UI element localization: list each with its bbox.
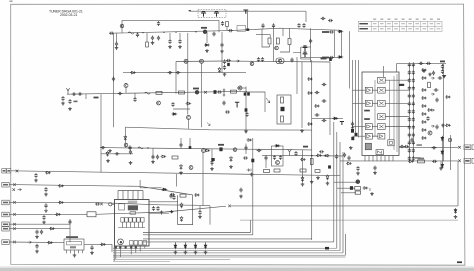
component X205 [244, 92, 247, 95]
capacitor ladder B y127 [412, 125, 415, 130]
wire drop x310 [310, 28, 312, 62]
ic U3 pin down 6 [384, 156, 386, 162]
component X201 [329, 58, 332, 61]
ground G244 [129, 161, 133, 165]
capacitor C241 [315, 113, 320, 116]
ic U3 pin down 5 [380, 156, 382, 162]
capacitor C207 [157, 36, 160, 41]
capacitor C264 [152, 206, 155, 211]
ground G247 [205, 49, 209, 53]
transistor Q203 [120, 24, 124, 28]
ground G223 [73, 254, 77, 258]
wire drop x188 [187, 33, 189, 115]
ic U1 pin pad [125, 246, 127, 248]
label C217 [322, 31, 329, 33]
capacitor ladder A y112 [408, 109, 411, 114]
wire buffer to mixer [372, 135, 377, 137]
capacitor ladder B y73 [412, 70, 415, 75]
ic U3 pin down 7 [388, 156, 390, 162]
wire drop to diode [174, 242, 176, 245]
wire drop x222 to mid rail [221, 32, 223, 61]
label Q204 [201, 27, 207, 29]
wire x266 drop [265, 156, 267, 169]
arrow A204 [28, 241, 32, 244]
wire internal U3 d [396, 74, 398, 152]
connector CN2 [2, 182, 9, 187]
connector CN4 [2, 212, 9, 217]
capacitor ladder A y119 [408, 117, 411, 122]
ground G207 [68, 107, 72, 111]
capacitor ladder A y151 [408, 148, 411, 153]
wire Q214 down [188, 120, 190, 129]
ic U2 pin 3 [74, 250, 76, 253]
capacitor ladder B y65 [412, 62, 415, 67]
capacitor ladder B y104 [412, 101, 415, 106]
block P1 [388, 140, 394, 146]
capacitor C258 [198, 210, 201, 215]
wire buffer to mixer [372, 102, 377, 104]
capacitor ladder B y88 [412, 86, 415, 91]
fuse F202 [145, 92, 151, 94]
wire drop x289 [289, 28, 291, 38]
transistor Q206 [303, 46, 308, 51]
ic U1 top pin wire [127, 191, 129, 200]
mixer M3 [378, 100, 386, 106]
capacitor C211 [228, 29, 233, 32]
connector CN3 [2, 200, 9, 205]
ic U1 pin stub 1 [121, 222, 123, 228]
diode D212 [161, 155, 167, 158]
bottom scan shadow fade [0, 266, 474, 268]
wire rail y57 [301, 56, 342, 58]
buffer B4 [365, 133, 372, 139]
diode D252 [441, 163, 444, 169]
ic U1 internal rail [118, 227, 145, 229]
diode D231 [162, 188, 168, 191]
wire long vertical x311 [311, 60, 313, 240]
inductor L201 [246, 29, 249, 31]
capacitor C252 [279, 155, 282, 160]
transistor Q221 [428, 131, 432, 135]
wire row feed [353, 89, 366, 91]
ground G226 [454, 215, 458, 219]
wire top right rail [397, 63, 447, 65]
bottom scan shadow [0, 268, 474, 271]
label Q217 [218, 144, 224, 146]
capacitor C245 [151, 155, 154, 160]
arrow A202 [207, 123, 210, 126]
capacitor C215 [297, 23, 300, 28]
capacitor ladder A y143 [408, 140, 411, 145]
connector CN1b [7, 169, 11, 173]
ic U3 pin down 8 [392, 156, 394, 162]
wire stub riser a [334, 181, 356, 183]
ic U2 outline [64, 239, 84, 250]
resistor R206 [231, 90, 237, 93]
capacitor C219 [226, 59, 231, 62]
fuse F201 [128, 32, 134, 34]
wire row out [385, 89, 409, 91]
ic U1 top pin wire [117, 191, 119, 200]
ic U1 pin stub 6 [141, 222, 143, 228]
capacitor C234 [133, 97, 136, 102]
ground G242 [349, 146, 353, 150]
diode D210 [307, 123, 313, 126]
diode at x195.5 [194, 244, 197, 250]
diode D247 [180, 164, 183, 170]
wire row out [385, 116, 409, 118]
wire drop [440, 161, 442, 166]
diode D241 [106, 151, 109, 157]
transistor Q207 [303, 52, 308, 57]
title text line 1 [49, 10, 83, 14]
wire node to U1 [112, 203, 115, 205]
capacitor C208 [168, 39, 171, 44]
ground under x205.5 [204, 251, 208, 255]
svg-text:2002-03-21: 2002-03-21 [60, 13, 77, 17]
capacitor C251 [273, 155, 276, 160]
wire drop x180 [179, 33, 181, 39]
ground G211 [151, 160, 155, 164]
transistor Q209 [278, 59, 281, 62]
loop coil L202 [276, 58, 284, 64]
capacitor C250 [264, 156, 267, 161]
diode col y106 [421, 105, 427, 108]
capacitor C206 [151, 36, 154, 41]
capacitor ladder B y80 [412, 78, 415, 83]
junction J205 [195, 31, 196, 32]
mixer M5 [378, 124, 386, 130]
capacitor C308 [239, 188, 242, 193]
ground G224 [90, 251, 94, 255]
capacitor C291 [34, 173, 37, 178]
crossing node N201 [204, 91, 207, 94]
diode D221 [326, 175, 329, 181]
crossing node N205 [100, 203, 103, 206]
wire Q212 to bus [125, 88, 127, 94]
capacitor C299 [129, 150, 132, 155]
ic U2 inner [67, 242, 82, 249]
wire x181 drop [180, 138, 182, 148]
arrow right bank y94 [431, 93, 434, 95]
wire drop x273 [273, 28, 275, 62]
ic U3 outline [362, 72, 399, 156]
wire drop to diode [184, 242, 186, 245]
diode D230 [180, 216, 183, 222]
wire drop x283 [282, 28, 284, 36]
wire row feed [353, 135, 366, 137]
capacitor C298 [115, 152, 120, 155]
ground G216 [326, 182, 330, 186]
capacitor C261 [68, 220, 71, 225]
diode D243 [194, 194, 200, 197]
wire rail y118 [312, 117, 343, 119]
ground G251 [441, 124, 445, 128]
wire above U1 drop [139, 180, 141, 188]
diode D222 [58, 185, 64, 188]
wire B4 to M area [372, 135, 378, 137]
wire riser x345 [345, 234, 347, 255]
diode D236 [346, 162, 352, 165]
capacitor C262 [35, 244, 38, 249]
ground under x195.5 [194, 251, 198, 255]
wire from CN3 [9, 202, 210, 205]
diode D254 [445, 124, 451, 127]
resistor R203 [288, 39, 291, 45]
wire drop x262 [261, 29, 263, 45]
wire to C205 [116, 33, 118, 42]
capacitor ladder B y143 [412, 140, 415, 145]
label row2 [415, 157, 420, 159]
capacitor C214 [309, 39, 312, 44]
loop box wires [277, 95, 291, 124]
ic U1 pin stub 4 [133, 222, 135, 228]
capacitor C246 [156, 155, 159, 160]
label inside U3 a [364, 110, 370, 112]
capacitor C225 [223, 65, 226, 70]
transistor Q211 [200, 59, 204, 63]
ground G228 [428, 73, 432, 77]
diode D204 [218, 67, 221, 73]
label L203 [94, 97, 99, 99]
capacitor C314 [434, 88, 439, 91]
capacitor C243 [101, 146, 106, 149]
label C218 [322, 57, 329, 59]
diode col y78 [421, 77, 427, 80]
regulator block [365, 143, 371, 150]
wire x302 vertical [301, 62, 303, 128]
wire riser x333 [333, 122, 335, 242]
wire riser x252 [252, 138, 254, 235]
ground G245 [168, 45, 172, 49]
capacitor C239 [322, 83, 327, 86]
wire main mid bus [67, 91, 247, 94]
junction J203 [163, 32, 164, 33]
capacitor C295 dark tee [340, 122, 344, 126]
diode D202 [338, 30, 344, 33]
capacitor C265 [156, 206, 159, 211]
capacitor C297 [432, 146, 437, 149]
capacitor C226 [168, 71, 173, 74]
capacitor C247 [179, 143, 182, 148]
component X215 [351, 137, 354, 140]
wire riser x250 [250, 220, 252, 232]
wire main top bus [109, 28, 342, 33]
transistor Q215 [238, 86, 242, 90]
diode D244 [247, 139, 253, 142]
wire U1 right stub1 [149, 201, 178, 203]
component X214 [355, 133, 358, 136]
transistor Q204 [203, 30, 207, 34]
transistor Q232 [157, 101, 161, 105]
loop wires2 [272, 146, 284, 166]
wire bundle band [113, 250, 340, 252]
wire from CN6 [9, 241, 64, 244]
wire x125 down [124, 127, 126, 148]
ic U2 pin 4 [78, 250, 80, 253]
ic U1 pin pad [119, 246, 121, 248]
ground G225 [160, 211, 164, 215]
capacitor C270 [404, 145, 409, 148]
transistor Q213 [195, 91, 199, 95]
capacitor C210 [212, 32, 215, 37]
ground under x175.4 [174, 251, 178, 255]
arrow right bank y110 [431, 109, 434, 111]
component X210 [251, 159, 254, 163]
fuse F203 [138, 147, 143, 149]
diode D205 [130, 71, 136, 74]
wire bundle band [113, 252, 343, 254]
ic U1 bottom pin wire [130, 246, 132, 254]
ic U1 bottom pin wire [139, 246, 141, 251]
capacitor C260 [40, 230, 43, 235]
wire bundle band [113, 256, 346, 258]
wire riser x340 [339, 142, 341, 251]
wire from CN2 [9, 185, 193, 195]
capacitor C244 [128, 145, 131, 150]
wire bundle line3 [143, 238, 312, 241]
resistor R217 [355, 191, 361, 194]
transistor Q219 [276, 161, 280, 165]
diode D255 [427, 109, 433, 112]
ic U1 block A [119, 204, 125, 210]
diode col y122 [421, 121, 427, 124]
ground G246 [178, 45, 182, 49]
crossing node out y147 [458, 146, 461, 149]
ground G227 [422, 69, 426, 73]
ground under x185.4 [184, 251, 188, 255]
wire feed vertical [352, 60, 354, 130]
wire drop x153 [152, 148, 154, 158]
arrow A201 [236, 60, 239, 62]
capacitor C229 [78, 92, 83, 95]
diode D226 [47, 241, 53, 244]
ic U1 bottom pin wire [135, 246, 137, 253]
standby switch dashed box [198, 10, 226, 18]
ic U2 pin 2 [70, 250, 72, 253]
wire right rail x443 [443, 64, 445, 162]
buffer B5 [378, 133, 385, 139]
ic U1 top pin wire [122, 191, 124, 200]
wire vertical x203 [202, 152, 204, 206]
wire drop x227 [226, 27, 228, 31]
capacitor C233 [118, 92, 123, 95]
capacitor C213 [272, 23, 275, 28]
capacitor C293 [351, 122, 354, 127]
diode D227 [100, 243, 106, 246]
capacitor C307 [319, 150, 324, 153]
ground G232 [370, 192, 374, 196]
resistor R207 [281, 97, 284, 103]
title text line 2 [60, 13, 77, 17]
wire link y109 [173, 108, 190, 110]
ic U1 cell row [121, 218, 144, 223]
capacitor C282 [373, 166, 376, 171]
wire drop x86 [85, 94, 87, 99]
diode D251 [441, 150, 444, 156]
diode D203 [338, 56, 344, 59]
wire loop around Q206 Q207 [293, 47, 311, 59]
ground G250 dark [442, 75, 447, 78]
arrow right bank y126 [431, 125, 434, 127]
wire sub link [262, 45, 270, 47]
ground G243 [106, 159, 110, 163]
ground G212 [250, 173, 254, 177]
capacitor C248 [244, 146, 247, 151]
wire row out [385, 79, 409, 81]
label C218b [321, 58, 327, 60]
ground G219 [42, 221, 46, 225]
wire long vertical x101 [100, 94, 102, 173]
crossing node out y161 [458, 160, 461, 163]
resistor R221 [226, 22, 229, 27]
capacitor C257 [42, 215, 45, 220]
wire drop x212 [211, 149, 213, 166]
resistor R208 [281, 116, 284, 122]
component X213 [351, 129, 354, 132]
diode D215 [230, 156, 233, 162]
wire internal U3 b [389, 80, 391, 140]
crossing node CN3 [13, 201, 16, 204]
capacitor C212 [261, 23, 264, 28]
label C231 [74, 101, 78, 103]
diode at x205.5 [204, 244, 207, 250]
wire row feed [353, 126, 366, 128]
arrow right bank y78 [431, 77, 434, 79]
buffer B1 [365, 87, 372, 93]
capacitor C267 [169, 194, 172, 199]
resistor R224 [428, 82, 431, 88]
ic U1 outline [115, 200, 150, 247]
ic U3 pin down 4 [376, 156, 378, 162]
ground G235 [239, 195, 243, 199]
capacitor C202 [157, 21, 160, 26]
capacitor C217 [329, 30, 334, 33]
ic U1 transistor Q220 [118, 239, 124, 245]
capacitor ladder B y135 [412, 133, 415, 138]
wire drop x176b [176, 174, 178, 187]
resistor R213 [87, 212, 96, 217]
diode D253 [445, 96, 451, 99]
diode col y90 [421, 89, 427, 92]
transistor Q210 [184, 59, 188, 63]
arrow A205 [18, 188, 22, 190]
resistor R209 [172, 156, 178, 159]
capacitor ladder B y151 [412, 148, 415, 153]
diode D208 [307, 92, 313, 95]
capacitor C280 [347, 156, 350, 161]
capacitor C266 [170, 193, 175, 196]
ground G221 [35, 235, 39, 239]
mode table [358, 19, 442, 32]
diode D207 [307, 78, 313, 81]
capacitor C277 [438, 76, 443, 79]
ground G214 [229, 165, 233, 169]
diode D214 with ground [247, 169, 252, 172]
component X209 [189, 146, 192, 149]
diode D213 [205, 149, 211, 152]
capacitor C228 [72, 93, 77, 96]
ground G206 [61, 102, 65, 106]
ground G229 [439, 167, 443, 171]
component X218 [211, 158, 214, 161]
ground G201 [115, 46, 119, 50]
crossing node N203 [228, 205, 231, 208]
wire drop x135 [134, 93, 136, 98]
wire sub rail drop [269, 35, 271, 38]
wire drop to diode [195, 242, 197, 245]
wire internal U3 a [374, 80, 376, 136]
